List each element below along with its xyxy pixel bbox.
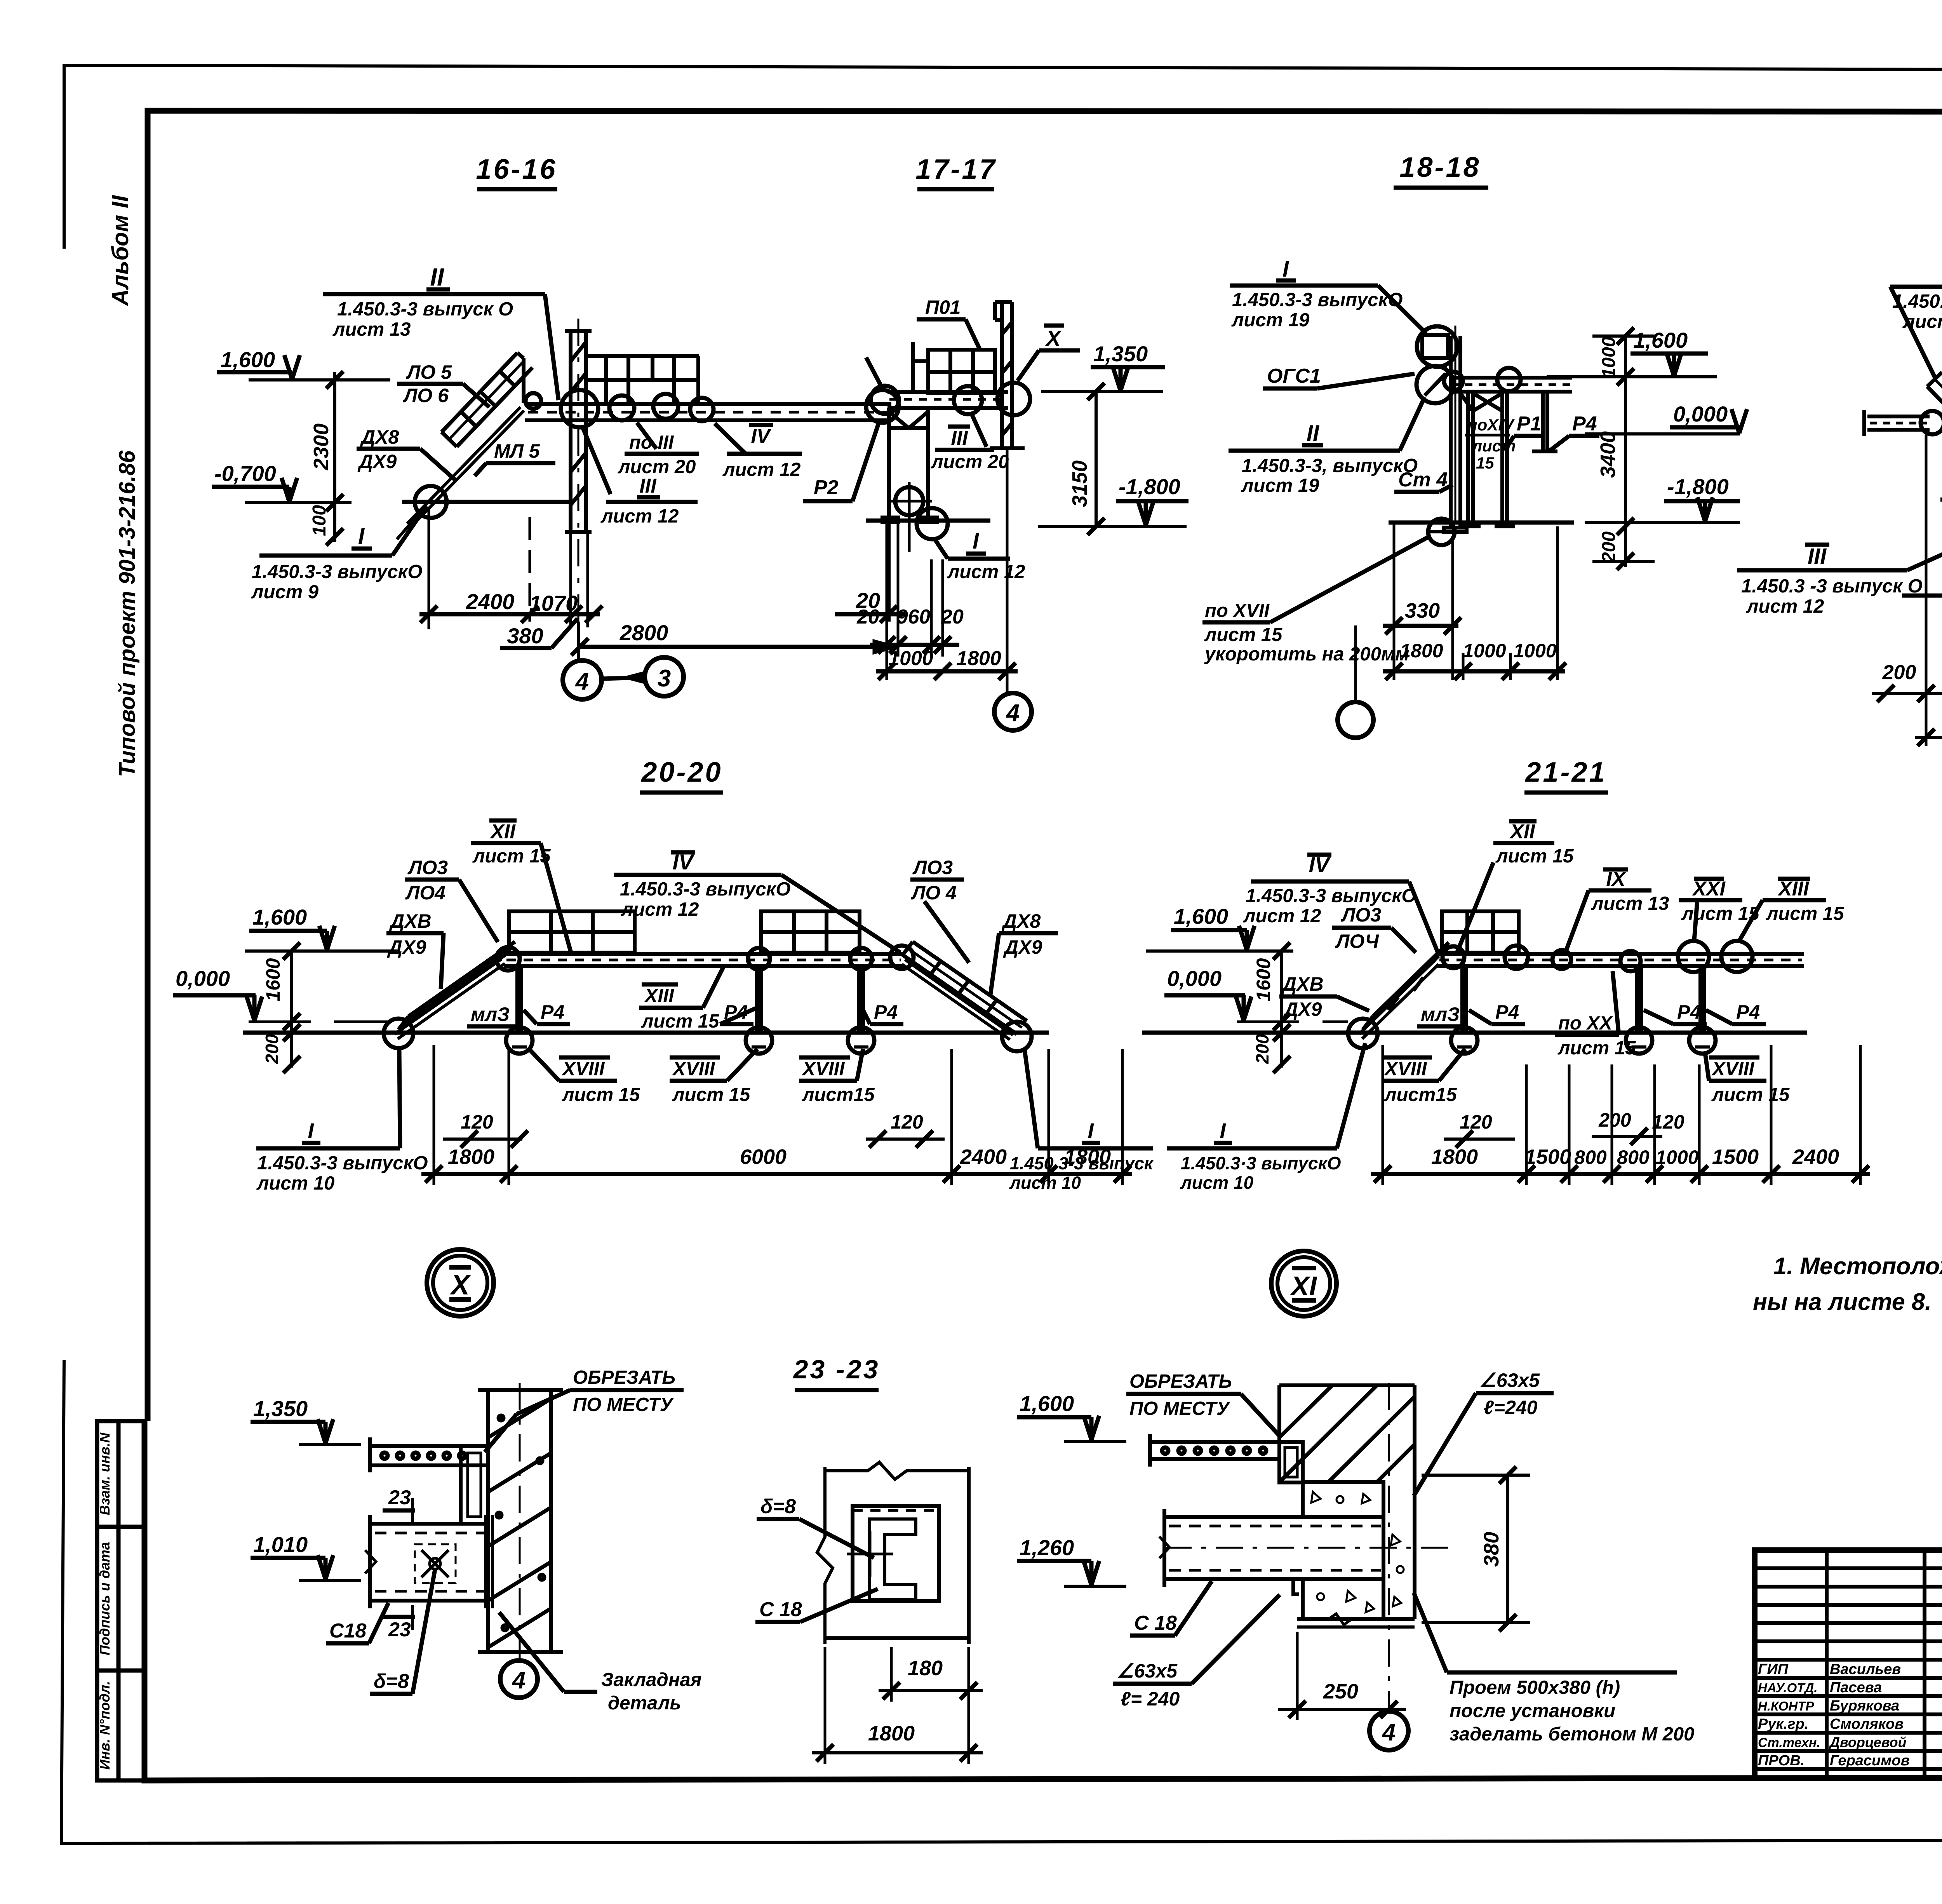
top slab with rebar: [370, 1437, 488, 1472]
svg-text:XVIII: XVIII: [801, 1058, 845, 1080]
dim 3150: [1095, 392, 1098, 526]
svg-text:лист 12: лист 12: [722, 459, 800, 480]
svg-text:IV: IV: [751, 425, 771, 448]
svg-text:960: 960: [897, 606, 931, 628]
svg-text:1.450.3·3 выпускО: 1.450.3·3 выпускО: [1181, 1153, 1341, 1173]
dim 380: [1506, 1475, 1509, 1623]
svg-text:23 -23: 23 -23: [793, 1355, 880, 1384]
svg-text:лист15: лист15: [802, 1084, 875, 1105]
label III лист 20: [971, 413, 987, 447]
svg-text:0,000: 0,000: [1167, 966, 1222, 991]
posts: [517, 966, 863, 1033]
svg-text:1,600: 1,600: [1633, 328, 1688, 352]
svg-text:ДХ9: ДХ9: [357, 451, 397, 472]
svg-text:ГИП: ГИП: [1758, 1661, 1789, 1678]
svg-text:XVIII: XVIII: [1383, 1058, 1427, 1080]
svg-text:200: 200: [1598, 1109, 1631, 1131]
channel section: [853, 1506, 939, 1601]
svg-text:С 18: С 18: [759, 1598, 802, 1621]
svg-text:поXIV: поXIV: [1467, 416, 1515, 434]
svg-text:1.450.3 -3 выпуск О: 1.450.3 -3 выпуск О: [1741, 576, 1923, 597]
svg-text:П01: П01: [925, 296, 961, 318]
svg-text:4: 4: [512, 1667, 526, 1694]
svg-text:1000: 1000: [1463, 640, 1506, 662]
svg-text:лист 15: лист 15: [562, 1084, 640, 1105]
svg-text:-1,800: -1,800: [1119, 474, 1180, 499]
svg-text:1,350: 1,350: [253, 1396, 308, 1421]
bottom slab lines: [1297, 1617, 1415, 1621]
svg-text:20: 20: [856, 606, 879, 628]
leader from IV label (left): [866, 357, 882, 388]
svg-text:Р4: Р4: [541, 1001, 564, 1023]
svg-text:180: 180: [908, 1657, 943, 1680]
axis circle 4: [519, 1383, 521, 1660]
svg-text:1800: 1800: [956, 647, 1001, 670]
circled X: [427, 1249, 494, 1316]
svg-text:Р4: Р4: [1677, 1001, 1701, 1023]
svg-text:Подпись и дата: Подпись и дата: [97, 1542, 113, 1655]
SECTION 16-16: [212, 154, 905, 699]
svg-text:С 18: С 18: [1134, 1612, 1177, 1634]
stair stringer МЛ5: [407, 407, 520, 524]
svg-text:XII: XII: [1509, 820, 1535, 843]
svg-text:I: I: [1088, 1118, 1094, 1143]
svg-text:1,350: 1,350: [1093, 341, 1148, 366]
svg-text:лист 15: лист 15: [1681, 903, 1759, 924]
node circles: [384, 1019, 413, 1048]
handrail above beam: [587, 356, 699, 404]
svg-text:800: 800: [1617, 1146, 1650, 1168]
foot circles: [1451, 1027, 1477, 1054]
svg-text:1,600: 1,600: [221, 347, 275, 372]
svg-text:1.450.3-3 выпуск О: 1.450.3-3 выпуск О: [337, 299, 513, 320]
svg-text:Р4: Р4: [1495, 1001, 1519, 1023]
svg-text:ДХ9: ДХ9: [1003, 936, 1042, 958]
SECTION 21-21: [1142, 757, 1870, 1316]
anchor symbol: [421, 1550, 449, 1577]
DETAIL 23-23: [755, 1355, 983, 1764]
dim 1600 200: [290, 951, 293, 1068]
svg-text:1800: 1800: [1064, 1145, 1111, 1169]
label проем 500x380: [1447, 1671, 1677, 1675]
svg-text:Васильев: Васильев: [1830, 1661, 1901, 1678]
svg-text:1,260: 1,260: [1020, 1535, 1074, 1560]
svg-text:-1,800: -1,800: [1667, 474, 1729, 499]
svg-text:укоротить на 200мм: укоротить на 200мм: [1204, 644, 1409, 665]
floor: [1389, 521, 1574, 525]
svg-text:120: 120: [1652, 1111, 1684, 1133]
SECTION 17-17: [856, 154, 1189, 730]
svg-text:ℓ=240: ℓ=240: [1484, 1397, 1538, 1418]
svg-text:3400: 3400: [1596, 431, 1620, 478]
right column: [887, 422, 891, 622]
main block: [1755, 1550, 1942, 1779]
svg-text:НАУ.ОТД.: НАУ.ОТД.: [1758, 1681, 1817, 1695]
svg-text:ОБРЕЗАТЬ: ОБРЕЗАТЬ: [1129, 1371, 1232, 1392]
svg-text:1,600: 1,600: [252, 905, 307, 929]
beam: [1437, 954, 1804, 966]
svg-text:2300: 2300: [310, 423, 333, 470]
svg-text:Альбом II: Альбом II: [107, 195, 133, 307]
svg-text:ОГС1: ОГС1: [1267, 365, 1321, 387]
wall right hatched: [990, 302, 1025, 448]
wall hatched: [565, 319, 592, 622]
grating platform: [913, 342, 995, 393]
svg-text:XVIII: XVIII: [561, 1058, 605, 1080]
lower dim extensions: [886, 524, 888, 680]
svg-text:лист 9: лист 9: [251, 582, 319, 603]
svg-text:17-17: 17-17: [915, 154, 997, 185]
dim 200 vertical: [1624, 526, 1627, 567]
svg-text:δ=8: δ=8: [374, 1670, 409, 1693]
svg-text:III: III: [1808, 544, 1827, 569]
svg-text:XVIII: XVIII: [1711, 1058, 1754, 1080]
svg-text:лист 15: лист 15: [472, 846, 551, 867]
LEFT_MARGIN: [97, 195, 144, 1780]
floor line: [866, 519, 990, 523]
svg-text:II: II: [430, 263, 444, 291]
svg-text:ЛО 5: ЛО 5: [406, 361, 452, 383]
svg-text:по III: по III: [629, 432, 674, 453]
svg-text:1.450.3-3 выпускО: 1.450.3-3 выпускО: [257, 1153, 428, 1174]
beam: [887, 392, 1008, 408]
svg-text:деталь: деталь: [608, 1693, 681, 1714]
svg-text:Закладная: Закладная: [601, 1669, 702, 1690]
svg-text:лист 15: лист 15: [641, 1011, 719, 1032]
svg-text:δ=8: δ=8: [760, 1495, 796, 1518]
label III лист 12: [583, 427, 611, 494]
svg-text:ДХВ: ДХВ: [1281, 973, 1324, 995]
svg-text:после установки: после установки: [1450, 1700, 1615, 1721]
svg-text:4: 4: [575, 668, 589, 695]
svg-text:лист 12: лист 12: [1902, 311, 1942, 332]
beam node circles: [871, 386, 899, 414]
svg-text:20-20: 20-20: [640, 757, 722, 788]
posts: [1462, 966, 1704, 1033]
svg-text:XII: XII: [489, 820, 516, 843]
svg-text:Герасимов: Герасимов: [1830, 1752, 1910, 1769]
svg-text:ЛО3: ЛО3: [407, 857, 448, 878]
svg-text:ны на листе 8.: ны на листе 8.: [1753, 1289, 1932, 1315]
svg-text:Смоляков: Смоляков: [1830, 1716, 1904, 1732]
svg-text:лист 19: лист 19: [1231, 310, 1310, 331]
posts under beam with braces: [1460, 392, 1513, 526]
svg-text:120: 120: [1460, 1111, 1492, 1133]
svg-text:380: 380: [1480, 1532, 1503, 1567]
dim 1600 200: [1280, 951, 1283, 1068]
svg-text:лист 15: лист 15: [672, 1084, 750, 1105]
svg-text:ОБРЕЗАТЬ: ОБРЕЗАТЬ: [573, 1367, 675, 1388]
vertical dim 2300 / 100: [333, 372, 336, 542]
svg-text:2400: 2400: [1792, 1145, 1839, 1169]
floor line: [402, 500, 569, 504]
svg-text:1. Местоположение сечений: 1. Местоположение сечений от 19-19 до 22…: [1773, 1253, 1942, 1280]
svg-text:2400: 2400: [466, 589, 515, 614]
dim 3400 vertical: [1624, 377, 1627, 526]
axis circles 4 and 3: [577, 622, 580, 660]
svg-text:лист 10: лист 10: [1180, 1172, 1254, 1193]
anchor plate on wall face: [484, 1515, 489, 1608]
svg-text:1500: 1500: [1712, 1145, 1759, 1169]
svg-text:200: 200: [262, 1034, 282, 1064]
svg-text:3150: 3150: [1068, 460, 1091, 507]
svg-text:1500: 1500: [1524, 1145, 1571, 1169]
gratings on beam: [509, 911, 860, 953]
svg-text:1,600: 1,600: [1020, 1391, 1074, 1416]
svg-text:ДХ8: ДХ8: [1001, 910, 1041, 932]
svg-text:21-21: 21-21: [1524, 757, 1606, 788]
svg-text:23: 23: [388, 1618, 411, 1641]
axis circle 4: [1388, 1383, 1390, 1711]
svg-text:1.450. 3-3 выпускО: 1.450. 3-3 выпускО: [1892, 291, 1942, 312]
svg-text:млЗ: млЗ: [1421, 1003, 1460, 1025]
svg-text:лист 19: лист 19: [1241, 475, 1319, 496]
left ladder band: [1927, 372, 1942, 477]
svg-text:250: 250: [1323, 1680, 1358, 1703]
svg-text:млЗ: млЗ: [471, 1003, 510, 1025]
SECTION 19-19: [1737, 154, 1942, 746]
svg-text:3: 3: [658, 665, 671, 692]
svg-text:ЛО3: ЛО3: [912, 857, 953, 878]
concrete upper patch: [1303, 1482, 1383, 1517]
svg-text:ПО МЕСТУ: ПО МЕСТУ: [573, 1394, 674, 1415]
svg-text:лист 15: лист 15: [1557, 1038, 1636, 1059]
svg-text:XXI: XXI: [1691, 878, 1726, 900]
svg-text:1,010: 1,010: [253, 1532, 308, 1557]
grating: [1442, 911, 1519, 953]
svg-text:100: 100: [309, 505, 330, 536]
svg-text:1.450.3-3 выпускО: 1.450.3-3 выпускО: [1232, 289, 1403, 310]
svg-text:Дворцевой: Дворцевой: [1829, 1734, 1907, 1750]
svg-text:ℓ= 240: ℓ= 240: [1121, 1688, 1180, 1710]
floor line: [1902, 594, 1942, 598]
label IV лист 12: [715, 423, 746, 454]
svg-text:III: III: [951, 427, 968, 449]
label по III лист 20: [637, 423, 656, 449]
svg-text:1800: 1800: [1400, 640, 1443, 662]
svg-text:1.450.3-3, выпускО: 1.450.3-3, выпускО: [1242, 455, 1418, 476]
channel beam horizontal: [365, 1515, 488, 1608]
svg-text:1000: 1000: [1513, 640, 1556, 662]
floor line: [243, 1031, 1049, 1035]
ladder band: [1363, 942, 1449, 1030]
svg-text:Проем 500x380 (h): Проем 500x380 (h): [1450, 1677, 1620, 1698]
top slab with rebar: [1150, 1434, 1279, 1467]
channel top flange C-section at wall: [461, 1446, 488, 1524]
floor: [1142, 1031, 1807, 1035]
svg-text:800: 800: [1574, 1146, 1607, 1168]
left ladder band: [398, 942, 515, 1030]
beam: [504, 954, 903, 966]
svg-text:лист 13: лист 13: [1591, 893, 1669, 914]
svg-text:лист 12: лист 12: [947, 561, 1025, 582]
axis circle 4: [994, 693, 1032, 730]
concrete column right: [1383, 1482, 1415, 1619]
left stub beam: [1864, 410, 1930, 436]
svg-text:16-16: 16-16: [476, 154, 557, 185]
margin stamp table: [97, 1421, 144, 1780]
svg-text:0,000: 0,000: [1673, 402, 1728, 426]
svg-text:ЛО4: ЛО4: [405, 882, 445, 904]
svg-text:∠63x5: ∠63x5: [1479, 1369, 1540, 1391]
svg-text:Р4: Р4: [874, 1001, 898, 1023]
svg-text:Р1: Р1: [1517, 413, 1542, 435]
svg-text:4: 4: [1006, 700, 1020, 726]
svg-text:X: X: [1045, 326, 1062, 350]
svg-text:1800: 1800: [868, 1722, 915, 1745]
svg-text:Р4: Р4: [1572, 413, 1597, 435]
svg-text:I: I: [1282, 256, 1289, 282]
svg-text:X: X: [449, 1270, 471, 1301]
concrete wall hatched: [478, 1390, 563, 1652]
right L support: [1532, 392, 1557, 451]
floor node circle: [415, 486, 447, 518]
beam: [1449, 378, 1572, 392]
svg-text:Инв. N°подл.: Инв. N°подл.: [97, 1681, 113, 1770]
svg-text:2400: 2400: [960, 1145, 1007, 1169]
svg-text:Пасева: Пасева: [1830, 1679, 1882, 1696]
svg-text:Взам. инв.N: Взам. инв.N: [97, 1432, 113, 1516]
NOTE TEXT: [1753, 1253, 1942, 1315]
ladder handrail band ЛО: [442, 353, 532, 447]
svg-text:I: I: [358, 524, 365, 549]
svg-text:1800: 1800: [1431, 1145, 1478, 1169]
svg-text:ЛО3: ЛО3: [1341, 904, 1381, 926]
svg-text:лист 12: лист 12: [600, 506, 679, 527]
svg-text:лист 15: лист 15: [1495, 846, 1574, 867]
svg-text:ПО МЕСТУ: ПО МЕСТУ: [1129, 1398, 1231, 1419]
svg-text:Р4: Р4: [1736, 1001, 1760, 1023]
svg-text:ЛО 6: ЛО 6: [403, 385, 449, 406]
svg-text:15: 15: [1476, 454, 1494, 472]
svg-text:лист 15: лист 15: [1204, 624, 1282, 645]
SECTION 20-20: [173, 757, 1154, 1316]
svg-text:ДХВ: ДХВ: [389, 910, 432, 932]
svg-text:200: 200: [1252, 1034, 1272, 1064]
svg-text:1.450.3-3 выпускО: 1.450.3-3 выпускО: [620, 879, 791, 900]
svg-text:Н.КОНТР: Н.КОНТР: [1758, 1699, 1815, 1713]
svg-text:120: 120: [461, 1111, 493, 1133]
svg-text:1600: 1600: [262, 958, 284, 1001]
svg-text:заделать бетоном М 200: заделать бетоном М 200: [1450, 1724, 1694, 1745]
beam through wall: [1159, 1509, 1383, 1587]
corner channel: [1279, 1442, 1303, 1482]
column: [1444, 326, 1467, 532]
svg-text:лист 10: лист 10: [256, 1173, 334, 1194]
SECTION 18-18: [1202, 152, 1747, 738]
masonry wall top (diagonal hatch): [1279, 1385, 1415, 1482]
svg-text:лист 20: лист 20: [618, 456, 696, 477]
foot circles: [506, 1027, 532, 1054]
svg-text:200: 200: [1599, 531, 1619, 563]
svg-text:лист 15: лист 15: [1766, 903, 1844, 924]
svg-text:лист 12: лист 12: [1746, 596, 1824, 617]
svg-text:III: III: [639, 475, 657, 497]
concrete lower patch: [1303, 1579, 1383, 1619]
dim 1000 vertical: [1624, 336, 1627, 377]
svg-text:200: 200: [1882, 661, 1916, 684]
left signature grid: [1755, 1550, 1942, 1779]
svg-text:6000: 6000: [740, 1145, 787, 1169]
svg-text:20: 20: [941, 606, 964, 628]
svg-text:по XVII: по XVII: [1205, 600, 1270, 621]
beam circles: [496, 947, 520, 970]
svg-text:ДХ9: ДХ9: [1282, 998, 1322, 1020]
beam walkway: [525, 404, 891, 420]
svg-text:XIII: XIII: [644, 985, 674, 1007]
svg-text:XI: XI: [1289, 1271, 1317, 1301]
svg-text:лист15: лист15: [1384, 1084, 1457, 1105]
lower dim extensions: [428, 509, 430, 629]
svg-text:0,000: 0,000: [176, 966, 230, 991]
svg-text:лист 12: лист 12: [1243, 906, 1321, 927]
svg-text:ЛО 4: ЛО 4: [911, 882, 957, 904]
svg-text:1.450.3-3 выпускО: 1.450.3-3 выпускО: [252, 561, 423, 582]
axis circle with cross on leg: [895, 487, 923, 515]
DETAIL B (bottom-middle: проем 500x380): [1017, 1369, 1694, 1750]
svg-text:∠63x5: ∠63x5: [1117, 1660, 1178, 1682]
DETAIL A (bottom-left: embedded channel at wall): [251, 1367, 702, 1714]
svg-text:I: I: [973, 528, 980, 554]
beam bolt nodes: [526, 393, 541, 409]
svg-text:120: 120: [891, 1111, 923, 1133]
svg-text:XIII: XIII: [1777, 878, 1810, 900]
svg-text:1,600: 1,600: [1174, 904, 1228, 928]
svg-text:4: 4: [1382, 1719, 1396, 1746]
svg-text:330: 330: [1405, 599, 1440, 622]
svg-text:ПРОВ.: ПРОВ.: [1758, 1752, 1805, 1769]
axis circle empty: [1338, 702, 1373, 738]
svg-text:II: II: [1307, 421, 1320, 446]
svg-text:1800: 1800: [448, 1145, 494, 1169]
node circle at foot: [917, 508, 948, 539]
svg-text:1600: 1600: [1253, 958, 1274, 1001]
svg-text:I: I: [1220, 1118, 1226, 1143]
svg-text:по XX: по XX: [1558, 1013, 1613, 1034]
svg-text:1070: 1070: [529, 591, 578, 615]
right ladder band: [903, 942, 1027, 1034]
legs: [882, 408, 937, 522]
svg-text:ЛОЧ: ЛОЧ: [1335, 930, 1379, 952]
svg-text:лист 13: лист 13: [332, 319, 411, 340]
big node circles on column: [1417, 326, 1457, 367]
svg-text:Ст.техн.: Ст.техн.: [1758, 1735, 1820, 1750]
svg-text:1000: 1000: [888, 647, 933, 670]
svg-text:380: 380: [507, 624, 543, 648]
svg-text:Ст 4: Ст 4: [1398, 469, 1448, 491]
svg-text:Р2: Р2: [814, 476, 839, 499]
svg-text:МЛ 5: МЛ 5: [494, 440, 540, 462]
circled XI: [1271, 1251, 1336, 1316]
TITLE BLOCK: [1755, 1418, 1942, 1827]
svg-text:-0,700: -0,700: [214, 461, 276, 486]
extension verticals: [1925, 435, 1928, 746]
beam circles: [1443, 946, 1464, 968]
svg-text:Бурякова: Бурякова: [1830, 1698, 1899, 1714]
svg-text:ДХ9: ДХ9: [387, 936, 426, 958]
svg-text:23: 23: [388, 1486, 411, 1509]
svg-text:лист 20: лист 20: [931, 451, 1009, 472]
svg-text:Типовой проект 901-3-216.86: Типовой проект 901-3-216.86: [115, 450, 140, 777]
svg-text:1.450.3-3 выпускО: 1.450.3-3 выпускО: [1246, 885, 1416, 906]
svg-text:18-18: 18-18: [1399, 152, 1481, 183]
svg-text:1000: 1000: [1599, 336, 1619, 378]
svg-text:I: I: [308, 1118, 314, 1143]
angle bracket at beam bottom: [1293, 1579, 1299, 1594]
svg-text:2800: 2800: [619, 620, 668, 645]
svg-text:С18: С18: [329, 1620, 366, 1642]
boundary lines: [817, 1467, 833, 1644]
